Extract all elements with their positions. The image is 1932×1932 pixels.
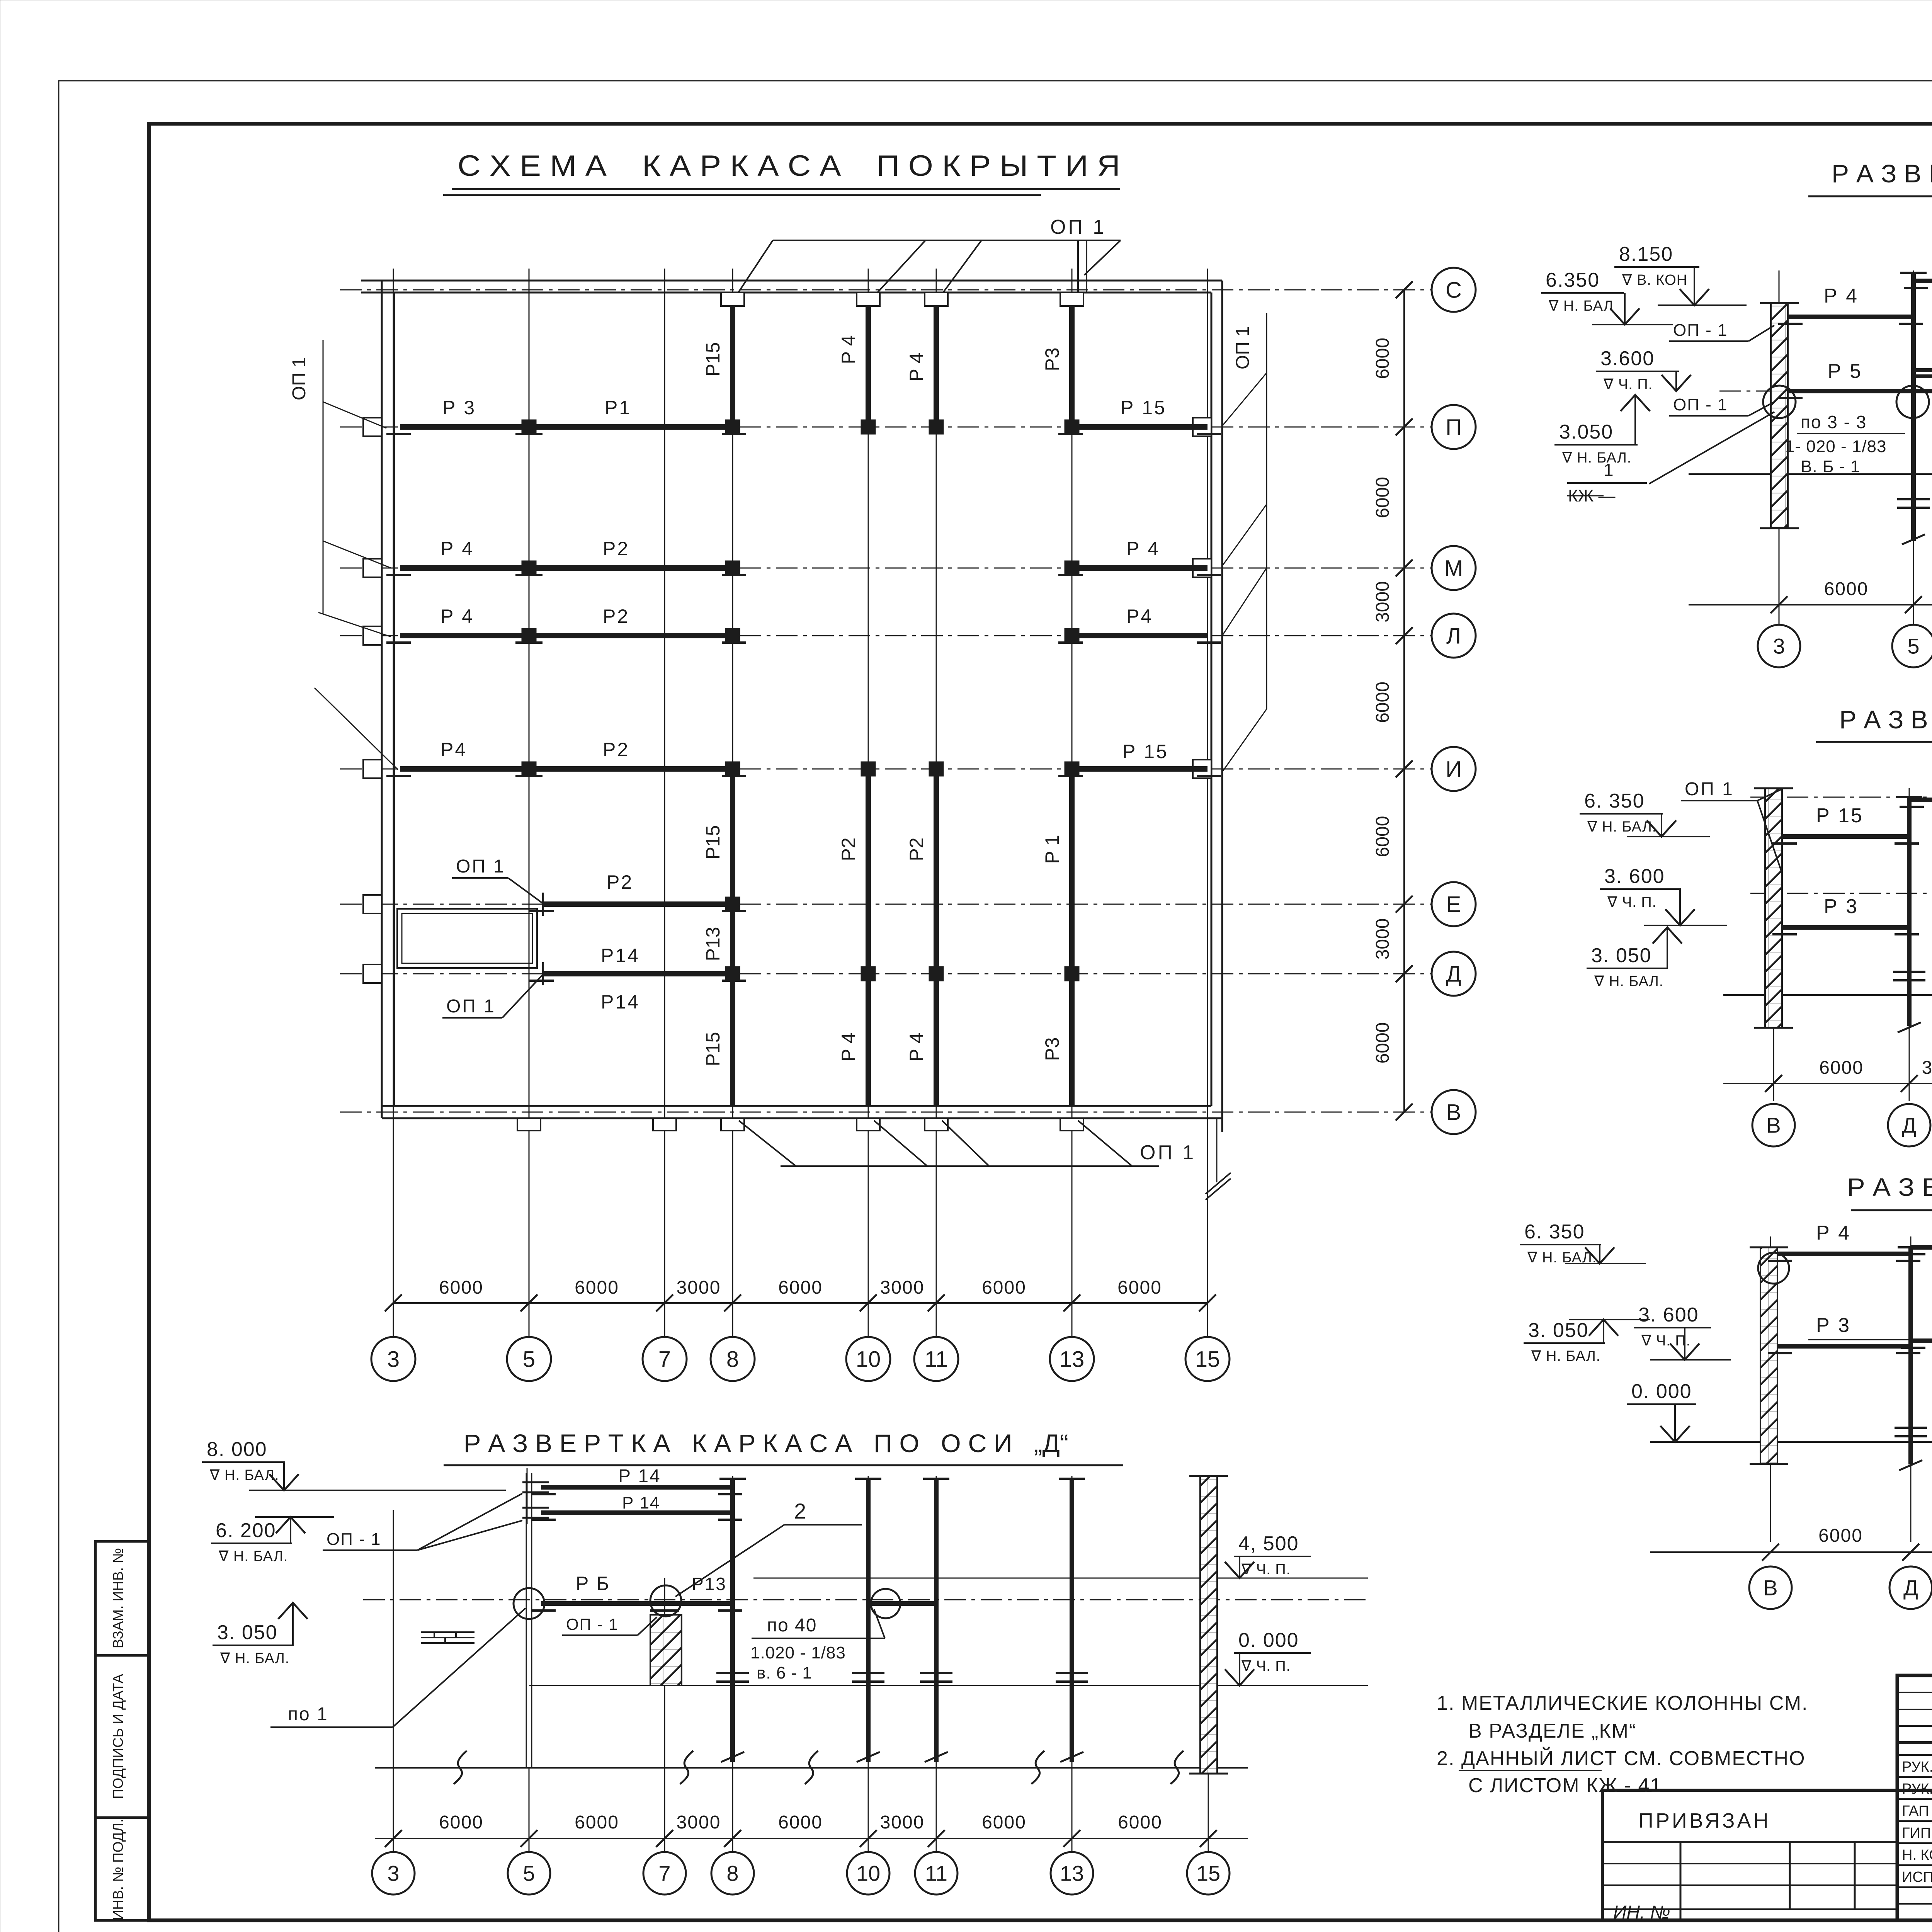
beam Р15 elevation 8 ВД	[1782, 834, 1909, 839]
elevation 8 dimension line	[1723, 1083, 1932, 1084]
column Д 10-11	[1908, 1247, 1913, 1464]
svg-text:13: 13	[1060, 1861, 1084, 1886]
svg-text:Р13: Р13	[702, 927, 724, 961]
svg-text:5: 5	[523, 1347, 535, 1372]
column ОП1 axis В hatched	[1765, 788, 1782, 1028]
svg-text:∇ Ч. П.: ∇ Ч. П.	[1641, 1333, 1690, 1349]
svg-text:3: 3	[1773, 634, 1785, 658]
svg-text:ИСПОЛН.: ИСПОЛН.	[1902, 1869, 1932, 1885]
svg-text:∇ Ч. П.: ∇ Ч. П.	[1607, 894, 1656, 910]
beam Р14 lower elevation Д	[541, 1510, 733, 1515]
elevation 8 ЧП dash level line	[1750, 893, 1932, 894]
elevation И base line	[1689, 473, 1932, 475]
svg-text:С ЛИСТОМ КЖ - 41: С ЛИСТОМ КЖ - 41	[1468, 1774, 1662, 1797]
svg-text:ОП 1: ОП 1	[1050, 216, 1106, 238]
svg-text:2. ДАННЫЙ ЛИСТ СМ. СОВМЕСТН: 2. ДАННЫЙ ЛИСТ СМ. СОВМЕСТНО	[1437, 1747, 1806, 1770]
svg-text:Р2: Р2	[603, 605, 629, 627]
svg-text:15: 15	[1195, 1347, 1220, 1372]
svg-text:6000: 6000	[1372, 816, 1393, 857]
column ОП1 axis3 hatched	[1771, 303, 1788, 528]
svg-text:Д: Д	[1902, 1113, 1917, 1138]
junction circle axis3	[1763, 386, 1796, 418]
svg-text:∇ Н. БАЛ.: ∇ Н. БАЛ.	[1594, 973, 1663, 990]
beam Р3 elevation 10-11 ВД	[1777, 1344, 1911, 1349]
svg-text:6000: 6000	[1117, 1277, 1162, 1298]
beam Р1 row П 5-8	[529, 424, 733, 430]
svg-text:Р2: Р2	[603, 739, 629, 760]
brick pier axis7	[650, 1615, 682, 1685]
svg-text:Р 15: Р 15	[1122, 741, 1168, 762]
svg-text:3: 3	[387, 1861, 399, 1886]
beam Р14 upper elevation Д	[541, 1485, 733, 1490]
column axis10 Д	[866, 1479, 871, 1677]
svg-text:3.050: 3.050	[1559, 421, 1613, 443]
svg-text:3000: 3000	[880, 1812, 925, 1833]
svg-text:6000: 6000	[1118, 1812, 1162, 1833]
svg-text:в. 6 - 1: в. 6 - 1	[757, 1663, 812, 1682]
svg-text:ОП - 1: ОП - 1	[327, 1530, 381, 1549]
beam Р1/Р3 axis13 И-В	[1069, 769, 1075, 1106]
svg-text:ОП 1: ОП 1	[1140, 1141, 1196, 1164]
beam Р15/Р13/Р15 axis8 И-В	[730, 769, 735, 1106]
svg-text:ГИП: ГИП	[1902, 1825, 1931, 1841]
svg-text:∇ Н. БАЛ.: ∇ Н. БАЛ.	[1531, 1348, 1600, 1364]
svg-text:Р 4: Р 4	[1816, 1222, 1851, 1244]
beam Р1 elevation 10-11 ДИ	[1911, 1338, 1932, 1343]
svg-text:Р А З В Е Р Т К А К А Р К А: Р А З В Е Р Т К А К А Р К А С А П О О С …	[1847, 1173, 1932, 1201]
beam Р4 axis10 С-П	[866, 306, 871, 427]
svg-text:И: И	[1446, 757, 1462, 782]
svg-text:Р 4: Р 4	[906, 352, 927, 381]
svg-text:С Х Е М А К А Р К А С А: С Х Е М А К А Р К А С А П О К Р Ы Т И Я	[457, 150, 1120, 182]
svg-text:∇ Н. БАЛ.: ∇ Н. БАЛ.	[209, 1467, 279, 1483]
svg-text:0. 000: 0. 000	[1631, 1380, 1692, 1403]
beam Р14 row Д 5-8	[543, 971, 733, 976]
plan perimeter wall bottom	[382, 1105, 1211, 1107]
beam Р4 row И 3-5	[400, 766, 529, 772]
svg-text:3.600: 3.600	[1600, 347, 1655, 370]
connection marks at beam starts	[522, 1481, 549, 1483]
node squares row Л	[522, 628, 536, 643]
node squares row Д	[725, 966, 740, 981]
svg-text:3. 050: 3. 050	[1591, 944, 1652, 967]
svg-text:6000: 6000	[575, 1277, 619, 1298]
elevation Д base line with breaks	[375, 1767, 1248, 1769]
svg-text:Н. КОНТР.: Н. КОНТР.	[1902, 1847, 1932, 1863]
column axis5	[1911, 273, 1916, 541]
title block outer	[1897, 1675, 1932, 1920]
svg-text:Р2: Р2	[838, 837, 859, 861]
svg-text:6000: 6000	[1372, 477, 1393, 518]
svg-text:6000: 6000	[778, 1812, 823, 1833]
svg-text:3000: 3000	[677, 1812, 721, 1833]
privyazan block	[1602, 1790, 1897, 1920]
beam Р15 row П 13-15	[1072, 424, 1207, 430]
svg-text:В: В	[1446, 1100, 1461, 1125]
svg-text:∇ Ч. П.: ∇ Ч. П.	[1241, 1658, 1291, 1674]
svg-text:3: 3	[387, 1347, 400, 1372]
svg-text:ОП - 1: ОП - 1	[1673, 395, 1728, 414]
beam Р2/Р4 axis11 И-В	[934, 769, 939, 1106]
beam Р15 axis8 С-П	[730, 306, 735, 427]
svg-text:6000: 6000	[439, 1277, 483, 1298]
svg-text:Р 3: Р 3	[1824, 895, 1859, 918]
beam Р2 row И 5-8	[529, 766, 733, 772]
svg-text:Д: Д	[1446, 961, 1461, 986]
svg-text:М: М	[1444, 556, 1463, 581]
junction circle axis5	[1896, 386, 1929, 418]
bottom wall tabs	[517, 1118, 541, 1131]
column axis13 Д	[1070, 1479, 1074, 1677]
svg-text:Р3: Р3	[1041, 347, 1063, 371]
svg-text:5: 5	[1907, 634, 1919, 658]
svg-text:3000: 3000	[1372, 918, 1393, 960]
svg-text:∇ Н. БАЛ.: ∇ Н. БАЛ.	[1562, 450, 1631, 466]
svg-text:6000: 6000	[575, 1812, 619, 1833]
svg-text:6000: 6000	[1819, 1058, 1864, 1078]
svg-text:10: 10	[856, 1861, 880, 1886]
svg-text:8. 000: 8. 000	[207, 1438, 267, 1461]
svg-text:Л: Л	[1446, 623, 1461, 648]
top slab connector tabs	[721, 293, 744, 306]
svg-text:6000: 6000	[982, 1812, 1026, 1833]
svg-text:В. Б - 1: В. Б - 1	[1801, 457, 1860, 476]
svg-text:3. 050: 3. 050	[217, 1621, 278, 1644]
right wall pilaster marks	[1193, 418, 1211, 436]
plan vertical dimension line	[1403, 290, 1405, 1112]
plan perimeter wall left	[381, 281, 383, 1118]
brick wall symbol left	[421, 1631, 474, 1633]
elevation Д axis circles	[372, 1852, 415, 1895]
node squares row М	[522, 561, 536, 575]
svg-text:Р А З В Е Р Т К А К А Р К А: Р А З В Е Р Т К А К А Р К А С А П О О С …	[1832, 159, 1932, 188]
elevation И axis circles	[1758, 625, 1800, 667]
plan perimeter wall top	[361, 280, 1222, 282]
svg-text:ПРИВЯЗАН: ПРИВЯЗАН	[1638, 1809, 1771, 1832]
plan number axis lines	[393, 269, 394, 1338]
beam Р4 elevation 10-11 ВД	[1777, 1252, 1911, 1256]
svg-text:6000: 6000	[1372, 682, 1393, 723]
svg-text:по 1: по 1	[288, 1704, 328, 1725]
svg-text:ОП 1: ОП 1	[1233, 326, 1253, 369]
elevation Д 4.500 line	[753, 1578, 1368, 1579]
elevation 8 axis lines	[1773, 788, 1774, 1101]
svg-text:3000: 3000	[677, 1277, 721, 1298]
svg-text:6.350: 6.350	[1546, 269, 1600, 291]
beam Р2/Р4 axis10 И-В	[866, 769, 871, 1106]
svg-text:8: 8	[726, 1861, 738, 1886]
svg-text:Д: Д	[1903, 1576, 1918, 1600]
svg-text:Р 14: Р 14	[618, 1466, 661, 1486]
svg-text:Р13: Р13	[692, 1574, 727, 1594]
svg-text:15: 15	[1196, 1861, 1220, 1886]
elevation 10-11 axis circles	[1749, 1566, 1792, 1609]
beam Р3 elevation 8	[1782, 925, 1909, 930]
svg-text:В РАЗДЕЛЕ „КМ“: В РАЗДЕЛЕ „КМ“	[1468, 1720, 1636, 1742]
svg-text:Р 1: Р 1	[1041, 835, 1063, 864]
beam 10-11 elevation Д	[868, 1601, 936, 1606]
svg-text:ОП - 1: ОП - 1	[1673, 321, 1728, 340]
svg-text:6000: 6000	[1824, 579, 1869, 599]
beam Р15 row И 13-15	[1072, 766, 1207, 772]
svg-text:ИН. №: ИН. №	[1613, 1902, 1670, 1923]
column axis8 Д	[730, 1479, 735, 1677]
svg-text:В: В	[1766, 1113, 1781, 1138]
svg-text:Р 15: Р 15	[1816, 804, 1864, 827]
beam Р12 elevation И double	[1913, 368, 1932, 372]
svg-text:Р 4: Р 4	[906, 1032, 927, 1061]
left stamp column	[95, 1541, 149, 1920]
svg-text:11: 11	[925, 1347, 948, 1372]
svg-text:ПОДПИСЬ И ДАТА: ПОДПИСЬ И ДАТА	[110, 1674, 126, 1799]
elevation 10-11 dimension line	[1650, 1551, 1932, 1553]
svg-text:Р2: Р2	[607, 871, 633, 893]
svg-text:3. 050: 3. 050	[1528, 1319, 1589, 1342]
svg-text:8.150: 8.150	[1619, 243, 1673, 265]
svg-text:РУК. КБ-1: РУК. КБ-1	[1902, 1781, 1932, 1797]
svg-text:Р14: Р14	[601, 945, 640, 966]
svg-text:Р 15: Р 15	[1121, 397, 1167, 418]
beam Р3 axis13 С-П	[1069, 306, 1075, 427]
title block row lines	[1897, 1741, 1932, 1744]
column axis11 Д	[934, 1479, 939, 1677]
svg-text:Р2: Р2	[906, 837, 927, 861]
svg-text:Р2: Р2	[603, 538, 629, 560]
svg-text:∇ Н. БАЛ.: ∇ Н. БАЛ.	[1587, 819, 1656, 835]
elevation И axis lines	[1779, 270, 1780, 626]
beam Р4 elevation И	[1788, 315, 1913, 319]
svg-text:С: С	[1446, 277, 1462, 303]
svg-text:1. МЕТАЛЛИЧЕСКИЕ КОЛОННЫ СМ.: 1. МЕТАЛЛИЧЕСКИЕ КОЛОННЫ СМ.	[1437, 1692, 1808, 1714]
svg-text:Р А З В Е Р Т К А К А Р К А: Р А З В Е Р Т К А К А Р К А С А П О О С …	[464, 1429, 1068, 1458]
axis13 top double line	[1077, 240, 1079, 293]
svg-text:6000: 6000	[1372, 338, 1393, 379]
svg-text:Р Б: Р Б	[576, 1573, 610, 1594]
elevation Д axis lines	[393, 1510, 394, 1851]
elevation И dimension line	[1689, 604, 1932, 605]
beam Р4 row Л 13-15	[1072, 633, 1207, 638]
svg-text:Р15: Р15	[702, 342, 724, 377]
svg-text:6000: 6000	[1372, 1022, 1393, 1064]
elevation 10-11 ЧП line left	[1808, 1339, 1932, 1340]
svg-text:Р 4: Р 4	[838, 335, 859, 364]
beam Р2 row М 5-8	[529, 565, 733, 571]
beam Р3 row П 3-5	[400, 424, 529, 430]
svg-text:∇ В. КОН ·: ∇ В. КОН ·	[1622, 272, 1697, 288]
elevation 8 base line	[1723, 994, 1932, 996]
svg-text:ИНВ. № ПОДЛ.: ИНВ. № ПОДЛ.	[110, 1819, 126, 1920]
svg-text:6. 350: 6. 350	[1524, 1221, 1585, 1243]
svg-text:6. 350: 6. 350	[1584, 790, 1645, 812]
svg-text:Р 3: Р 3	[442, 397, 476, 418]
beam end tick row Е start	[542, 893, 544, 916]
svg-text:ГАП: ГАП	[1902, 1803, 1929, 1819]
elevation 10-11 base line	[1650, 1441, 1932, 1443]
svg-text:∇ Н. БАЛ.: ∇ Н. БАЛ.	[220, 1650, 289, 1667]
svg-text:Р3: Р3	[1041, 1037, 1063, 1061]
beam Р4 axis11 С-П	[934, 306, 939, 427]
svg-text:1- 020 - 1/83: 1- 020 - 1/83	[1785, 437, 1887, 456]
svg-text:ОП 1: ОП 1	[289, 357, 310, 400]
plan horizontal dimension line	[393, 1302, 1207, 1304]
signature table thin rows	[1897, 1692, 1932, 1693]
beam Р5 elevation И left	[1788, 389, 1932, 393]
svg-text:по 40: по 40	[767, 1615, 817, 1636]
svg-text:Р 4: Р 4	[1824, 285, 1859, 307]
junction circle axis10 Д	[871, 1589, 900, 1618]
elevation 8 axis circles	[1752, 1104, 1795, 1146]
svg-text:∇ Н. БАЛ.: ∇ Н. БАЛ.	[218, 1548, 288, 1565]
svg-text:13: 13	[1060, 1347, 1085, 1372]
node squares row П	[522, 420, 536, 434]
svg-text:ОП 1: ОП 1	[446, 996, 496, 1017]
plan axis number circles	[371, 1337, 415, 1381]
svg-text:10: 10	[856, 1347, 881, 1372]
svg-text:ОП 1: ОП 1	[1685, 779, 1734, 799]
svg-text:Р 4: Р 4	[440, 605, 474, 627]
svg-text:Р 14: Р 14	[622, 1493, 660, 1512]
svg-text:3. 600: 3. 600	[1604, 865, 1665, 888]
svg-text:Р 5: Р 5	[1828, 360, 1862, 383]
elevation Д dimension line	[375, 1838, 1248, 1839]
column ОП1 axis15 hatched Д	[1200, 1476, 1217, 1774]
elevation И ЧП dash level line	[1719, 391, 1932, 392]
svg-text:11: 11	[925, 1861, 947, 1886]
svg-text:Р14: Р14	[601, 991, 640, 1013]
svg-text:∇ Ч. П.: ∇ Ч. П.	[1603, 376, 1653, 393]
svg-text:7: 7	[658, 1861, 670, 1886]
beam Р2 row Е 5-8	[543, 901, 733, 907]
privyazan grid	[1680, 1842, 1682, 1920]
column Д	[1907, 797, 1912, 1026]
svg-text:Р 4: Р 4	[1126, 538, 1160, 560]
svg-text:В: В	[1763, 1576, 1777, 1600]
svg-text:6000: 6000	[439, 1812, 483, 1833]
svg-text:6000: 6000	[982, 1277, 1026, 1298]
beam Р13 elevation Д	[665, 1601, 733, 1606]
roof opening Е-Д	[397, 909, 537, 968]
svg-text:∇ Н. БАЛ: ∇ Н. БАЛ	[1548, 298, 1614, 314]
node squares row И	[522, 762, 536, 776]
junction circle axis7 Д	[650, 1585, 681, 1616]
beam Р2 row Л 5-8	[529, 633, 733, 638]
svg-text:ОП - 1: ОП - 1	[566, 1615, 619, 1633]
junction circle В top 10-11	[1758, 1253, 1789, 1284]
elevation Д ЧП dash line	[363, 1599, 1368, 1600]
svg-text:1.020 - 1/83: 1.020 - 1/83	[750, 1643, 846, 1662]
svg-text:Р4: Р4	[1126, 605, 1153, 627]
svg-text:1: 1	[1604, 460, 1614, 480]
plan axis letter circles	[1432, 268, 1476, 312]
svg-text:Р А З В Е Р Т К А К А Р К А: Р А З В Е Р Т К А К А Р К А С А П О О С …	[1839, 705, 1932, 734]
wall break mark bottom right	[1206, 1173, 1231, 1200]
column ОП1 axis В hatched 10-11	[1760, 1247, 1777, 1464]
elevation Д 0.000 line	[529, 1685, 1368, 1686]
svg-text:7: 7	[658, 1347, 671, 1372]
svg-text:П: П	[1446, 415, 1462, 440]
elevation 10-11 axis lines	[1770, 1236, 1771, 1542]
svg-text:6. 200: 6. 200	[216, 1519, 276, 1542]
beam Р2 elevation 10-11 ДИ	[1911, 1245, 1932, 1250]
elevation 8 top dash level line	[1750, 797, 1932, 798]
beam Р5 elevation Д	[541, 1601, 665, 1606]
svg-text:6000: 6000	[778, 1277, 823, 1298]
svg-text:Е: Е	[1446, 892, 1461, 917]
beam Р13 elevation 8	[1909, 798, 1932, 802]
svg-text:по 3 - 3: по 3 - 3	[1801, 412, 1867, 432]
svg-text:3000: 3000	[1372, 581, 1393, 622]
plan perimeter wall right	[1211, 293, 1213, 1106]
svg-text:Р 3: Р 3	[1816, 1314, 1851, 1337]
svg-text:5: 5	[523, 1861, 535, 1886]
svg-text:ВЗАМ. ИНВ. №: ВЗАМ. ИНВ. №	[110, 1548, 126, 1648]
left wall pilaster marks	[363, 418, 382, 436]
svg-text:Р1: Р1	[605, 397, 631, 418]
svg-text:Р4: Р4	[440, 739, 467, 760]
node square row Е axis 8	[725, 897, 740, 912]
svg-text:0. 000: 0. 000	[1238, 1629, 1299, 1651]
svg-text:2: 2	[794, 1499, 806, 1523]
svg-text:Р15: Р15	[702, 825, 724, 860]
svg-text:Р 4: Р 4	[440, 538, 474, 560]
svg-text:3. 600: 3. 600	[1638, 1304, 1699, 1326]
svg-text:3000: 3000	[1922, 1058, 1932, 1078]
svg-text:Р 4: Р 4	[838, 1032, 859, 1061]
beam end tick row Д start	[542, 962, 544, 985]
beam Р2 elevation И	[1913, 279, 1932, 283]
beam Р4 row М 3-5	[400, 565, 529, 571]
plan letter axis lines	[340, 289, 1432, 291]
svg-text:8: 8	[726, 1347, 739, 1372]
beam Р4 row Л 3-5	[400, 633, 529, 638]
svg-text:4, 500: 4, 500	[1238, 1532, 1299, 1555]
beam Р4 row М 13-15	[1072, 565, 1207, 571]
svg-text:3000: 3000	[880, 1277, 925, 1298]
junction circle axis5 Д	[514, 1588, 544, 1619]
svg-text:Р15: Р15	[702, 1032, 724, 1066]
svg-text:РУК. АБ-1: РУК. АБ-1	[1902, 1759, 1932, 1775]
svg-text:ОП 1: ОП 1	[456, 856, 505, 877]
svg-text:6000: 6000	[1818, 1526, 1863, 1546]
